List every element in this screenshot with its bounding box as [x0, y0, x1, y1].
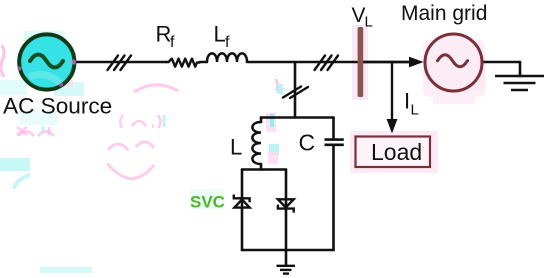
- svg-text:C: C: [299, 130, 316, 156]
- svg-text:SVC: SVC: [190, 193, 225, 212]
- svg-text:R: R: [156, 22, 172, 47]
- svg-text:V: V: [352, 4, 366, 27]
- svg-text:Main grid: Main grid: [401, 2, 487, 25]
- svg-text:I: I: [404, 89, 410, 114]
- svg-text:L: L: [230, 135, 242, 160]
- svg-text:f: f: [170, 34, 175, 51]
- svg-text:AC Source: AC Source: [3, 94, 112, 119]
- svg-text:L: L: [214, 22, 226, 47]
- svg-text:f: f: [225, 34, 230, 51]
- svg-text:Load: Load: [371, 139, 422, 165]
- svg-text:L: L: [365, 14, 373, 31]
- svg-text:L: L: [411, 102, 419, 119]
